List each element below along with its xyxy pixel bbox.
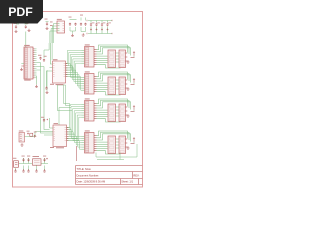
capacitor C16 on bus [41, 117, 48, 122]
wire loop IC1 bottom down to G3 area [58, 85, 73, 111]
wire stub below G4 [96, 144, 137, 160]
capacitor C15 [43, 156, 48, 162]
svg-text:REV:: REV: [133, 173, 139, 177]
wire bus IC1 to connector G2 [66, 64, 82, 78]
capacitor C14 [27, 156, 30, 162]
svg-text:Date: 12/8/2009 8:36 AM: Date: 12/8/2009 8:36 AM [77, 179, 106, 183]
capacitor C6 near J1 [43, 56, 47, 62]
wire bus IC1 to connector G1 [66, 50, 82, 63]
ground below J1 [35, 85, 38, 88]
capacitor bank C9-C12 [87, 20, 112, 34]
wire gnd drop from J1 [36, 76, 38, 85]
connector SV1 (small) [19, 131, 25, 147]
ground row power section [14, 169, 17, 172]
wire vertical bus left column [41, 63, 54, 134]
capacitor C5 near J1 [38, 55, 42, 60]
IC U1 MAX7219 [50, 59, 67, 85]
module group G4: connector JP7 + drivers [82, 130, 135, 154]
wire reset circuit [24, 132, 35, 137]
title block [76, 166, 143, 185]
wire power rail [19, 158, 48, 164]
wire bus IC2 right pins up to connector G3 [67, 104, 82, 127]
connector X1 DC jack [13, 158, 19, 168]
pin marks left of J1 [21, 63, 24, 65]
diode D1 [34, 132, 37, 138]
voltage regulator IC3 7805 [33, 156, 42, 165]
wire bus IC2 to connector G4 [67, 128, 82, 137]
label near JP3 [50, 21, 53, 24]
capacitor C1 + ground [14, 23, 20, 33]
connector JP3 [57, 19, 65, 33]
ground IC1 left [45, 86, 48, 89]
module group G1: connector JP4 + drivers [82, 44, 135, 68]
capacitor C13 [22, 156, 25, 162]
wire JP3 left pins down to IC1 [54, 24, 58, 44]
module group G3: connector JP6 + drivers [82, 98, 135, 122]
resistor R1 on reset line [27, 131, 33, 137]
wire bus at connector J1 right side [34, 48, 36, 50]
capacitor C2 + ground [25, 23, 31, 32]
ground mid column [46, 91, 49, 94]
wire IC2 left pins [35, 118, 53, 135]
net line left of G4 [76, 146, 78, 161]
connector J1 (40-pin header) [24, 45, 35, 81]
module group G2: connector JP5 + drivers [82, 71, 135, 95]
svg-text:PDF: PDF [8, 5, 33, 19]
svg-text:Document Number:: Document Number: [77, 173, 100, 177]
capacitor group C3 C4 [69, 17, 77, 37]
svg-text:Sheet: 1/1: Sheet: 1/1 [121, 179, 133, 183]
schematic frame border [13, 12, 143, 188]
wire VCC drop to connector J1 [25, 32, 27, 48]
resistor R2 near badge [45, 19, 49, 30]
wire drop to ground mid [46, 70, 48, 91]
svg-text:TITLE: Nixie: TITLE: Nixie [77, 167, 92, 171]
IC U2 MAX7219 [50, 123, 68, 148]
PDF badge [0, 0, 43, 24]
wire IC1 left pins [47, 68, 53, 87]
capacitor group C7 C8 [80, 15, 87, 37]
